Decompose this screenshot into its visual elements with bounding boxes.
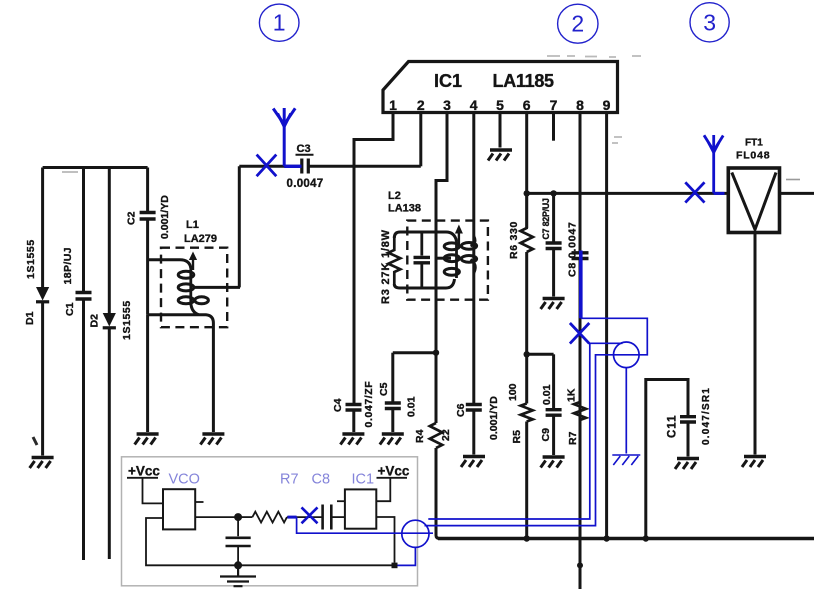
svg-text:5: 5 [496,97,504,113]
wire C11 to ground [687,422,690,457]
svg-text:22: 22 [440,429,452,441]
wire C2 branch [146,168,149,212]
svg-text:L1: L1 [186,219,199,231]
resistor R6 330 [508,193,533,259]
node VCO output junction [234,513,242,521]
svg-text:LA279: LA279 [184,233,217,245]
+Vcc right [377,464,410,479]
wire blue inset overlay [288,516,297,519]
wire to R7 [238,516,252,518]
inductor L2 coil [444,240,476,278]
IC1 left stub [337,500,345,502]
wire +Vcc to VCO [143,478,164,504]
svg-text:LA138: LA138 [388,203,421,215]
wire C1 down [82,299,85,560]
connector circle bottom [402,520,429,547]
svg-text:R3 27K 1/8W: R3 27K 1/8W [380,229,392,304]
wire C4 to ground [352,410,355,432]
node pin9 bus junction [603,535,609,541]
ground C5 [380,434,404,445]
svg-text:9: 9 [603,97,611,113]
wire antenna node vertical to L1 tap [238,166,241,287]
wire connector to blue ground [625,368,627,454]
wire pin5 stub [499,113,502,148]
wire pin6 node horizontal to FT1 [527,192,729,195]
svg-text:C8 0.0047: C8 0.0047 [567,221,579,277]
resistor R5 100 [507,383,533,443]
svg-text:C3: C3 [297,143,311,155]
node pin8 lower dot [577,562,583,568]
wire R7 to C8 [287,516,323,518]
svg-text:0.047/ZF: 0.047/ZF [363,381,375,428]
ground C7 [541,299,565,310]
svg-text:C5: C5 [378,382,390,396]
wire FT1 output [780,192,814,195]
diode D1 1S1555 [24,239,49,325]
wire R6 down to R5 [525,252,528,404]
wire D1 to ground [41,302,44,456]
wire (scan noise marks) [62,56,641,172]
wire R4 to bus [436,448,440,539]
wire pin3 to L2 tank [436,113,447,424]
svg-text:8: 8 [576,97,584,113]
svg-text:0.001/YD: 0.001/YD [488,396,500,440]
capacitor C5 0.01 [378,382,418,417]
svg-text:C11: C11 [667,415,679,438]
svg-text:FL048: FL048 [736,150,770,162]
L2 tuning arrow [455,225,463,245]
resistor R7 1K (main) [566,388,587,445]
wire R5 to bus [525,422,528,539]
svg-text:1S1555: 1S1555 [25,239,37,279]
block IC1 (inset) [345,472,376,529]
antenna ANT2 [704,135,723,193]
wire VCO output [195,516,238,518]
wire D2 down [108,328,111,559]
inductor L2 LA138 dashed box [388,190,488,300]
inductor L1 coil [178,266,208,304]
capacitor C6 0.001/YD [455,396,500,440]
wire D1 branch [41,168,44,288]
X cut mark 1 [257,155,277,177]
capacitor L2 tank internal [414,232,431,288]
node C9 tee junction [524,351,530,357]
VCO right stub [195,501,203,503]
antenna ANT1 [273,108,295,166]
op-amp U1 IC1 LA1185 body [383,62,618,113]
ground C11 [675,459,699,470]
svg-text:FT1: FT1 [745,138,763,149]
svg-text:C8: C8 [312,472,331,488]
wire blue inset tap route [297,517,433,533]
capacitor C2 0.001/YD [126,195,172,239]
svg-text:+Vcc: +Vcc [128,464,160,479]
node pin6/R6 junction [524,190,530,196]
svg-text:C7 82P/UJ: C7 82P/UJ [541,198,551,240]
wire L1 left down [146,315,149,432]
wire pin6 down [525,113,528,229]
L2 tank top rail [394,232,456,241]
wire blue antenna tap [284,165,301,168]
svg-text:VCO: VCO [169,472,200,488]
wire C4 branch (from C3 node down) [353,166,356,404]
wire inset bottom rail [146,518,392,565]
svg-text:R4: R4 [414,429,426,443]
capacitor C11 0.047/SR1 [667,387,713,445]
wire blue connector bottom link [397,547,415,565]
svg-text:0.0047: 0.0047 [287,178,324,190]
capacitor C1 18P/UJ [62,247,92,316]
node R5 bus junction [524,535,530,541]
ground L1 right [200,434,224,445]
capacitor C8 (inset) [312,472,332,530]
svg-text:2: 2 [571,11,584,37]
ground blue [612,455,640,465]
resistor R4 22 [414,423,452,448]
wire pin1 to C3 node [354,113,393,167]
wire L1 tap to antenna node [194,286,240,289]
svg-text:IC1: IC1 [434,71,462,91]
svg-text:1K: 1K [566,388,578,402]
ground FT1 [742,457,766,468]
ground C9 [541,457,565,468]
svg-text:7: 7 [550,97,558,113]
wire C5 tee [393,351,436,354]
svg-text:C1: C1 [64,302,76,316]
wire FT1 bottom to ground [754,233,757,455]
svg-text:1: 1 [273,10,286,36]
wire blue C8 jumper route [425,318,648,525]
svg-text:R5: R5 [511,430,523,444]
capacitor inset middle [226,517,251,565]
node C11 bus junction [643,535,649,541]
wire L1 bottom [148,303,214,432]
wire IC1 output down [376,517,394,563]
diode D2 1S1555 [89,300,134,340]
wire C6 to ground [472,410,475,455]
X cut mark 4 (inset) [302,507,318,523]
svg-text:C9: C9 [540,428,552,442]
node 2 (circled marker 2) [558,4,598,43]
wire antenna node horizontal [239,165,420,168]
svg-text:0.047/SR1: 0.047/SR1 [701,387,712,445]
svg-text:D2: D2 [89,314,101,328]
ground pin5 [488,150,512,161]
capacitor C4 0.047/ZF [332,381,375,428]
svg-text:2: 2 [417,97,425,113]
ground inset earth [220,565,256,586]
wire top-left rail [43,166,148,169]
noise tick left of D1 ground [33,437,37,445]
svg-text:C2: C2 [126,211,138,225]
svg-text:L2: L2 [388,190,401,202]
node inset bottom junction [234,561,242,569]
svg-text:3: 3 [703,10,716,36]
node 3 (circled marker 3) [690,3,729,42]
svg-text:C4: C4 [332,398,344,412]
svg-text:1: 1 [389,97,397,113]
ground D1 [30,458,54,469]
wire C11 branch [646,380,688,539]
wire +Vcc to IC1 [376,478,390,501]
svg-text:1S1555: 1S1555 [121,300,133,340]
wire pin9 down to bus [605,113,608,539]
capacitor C7 82P/UJ [541,193,562,248]
wire ground bus [438,537,814,540]
svg-text:C6: C6 [455,403,467,417]
wire pin8 line below C8 [579,259,582,539]
capacitor C3 0.0047 [287,143,324,190]
ground L1 left [135,434,159,445]
wire C9 tee [527,353,554,356]
wire C5 to ground [391,409,394,433]
svg-text:D1: D1 [24,311,36,325]
svg-text:R7: R7 [567,431,579,445]
wire C8 to IC1 [331,516,345,518]
inset box frame [122,457,418,586]
wire blue antenna2 tap [714,192,725,195]
svg-text:+Vcc: +Vcc [378,464,410,479]
wire pin2 to antenna node [419,113,422,167]
capacitor C9 0.01 [540,354,562,441]
svg-text:0.01: 0.01 [541,384,553,405]
node 1 (circled marker 1) [259,4,299,41]
wire L1 coil top entry [148,260,191,268]
ground C6 [461,457,485,468]
wire C1 branch [82,168,85,292]
svg-text:4: 4 [470,97,478,113]
node IC1 output square [392,563,398,569]
connector circle top [614,342,640,368]
wire C7 to ground [552,249,555,297]
resistor R7 (inset) [252,472,298,523]
svg-text:R7: R7 [280,472,299,488]
svg-text:R6 330: R6 330 [508,221,520,259]
capacitor C8 0.0047 (main) [567,221,589,277]
X cut mark 2 [685,182,704,202]
svg-text:0.001/YD: 0.001/YD [159,195,171,239]
inductor L1 LA279 dashed box [161,219,227,327]
L2 tank bottom rail [394,279,454,288]
svg-text:18P/UJ: 18P/UJ [62,247,74,284]
wire D2 branch [108,168,111,314]
filter FT1 FL048 [728,138,779,233]
wire pin8 down to C8 [579,113,582,253]
svg-text:100: 100 [507,383,519,401]
wire blue C8 jumper vertical [579,251,583,319]
svg-text:IC1: IC1 [352,472,375,488]
svg-text:LA1185: LA1185 [493,71,555,91]
svg-text:0.01: 0.01 [406,396,418,417]
node C7 junction [550,190,556,196]
wire pin4 down to C6 [472,113,475,405]
ground C4 [340,434,364,445]
svg-text:6: 6 [523,97,531,113]
wire L2 mid tap [436,257,451,260]
wire L2 secondary to pin4 line [471,236,476,273]
wire pin7 stub [552,113,555,141]
wire blue route 2 [428,343,622,519]
resistor R3 27K 1/8W [380,229,400,304]
wire C2 down to L1 [146,219,149,315]
wire pin8 line below bus [579,539,582,589]
block VCO [163,472,200,530]
L1 tuning arrow [189,252,197,271]
wire C5 branch [391,353,394,403]
X cut mark 3 [570,323,589,344]
+Vcc left [127,464,160,479]
noise dash [786,179,800,181]
wire C9 to ground [552,415,555,455]
node C5/R4 junction [433,350,439,356]
svg-text:3: 3 [443,97,451,113]
